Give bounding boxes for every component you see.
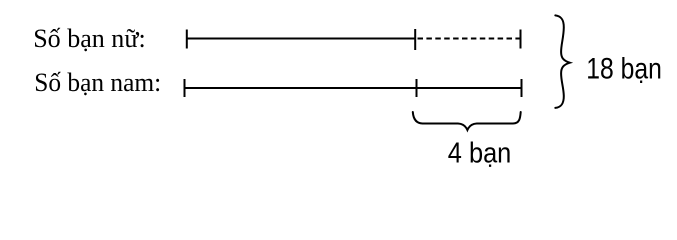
bar girls: dashed segment — [418, 38, 520, 40]
tick boys right — [521, 79, 523, 97]
bar boys: solid line — [185, 87, 522, 89]
tick girls middle — [414, 29, 416, 50]
tick girls left — [186, 30, 188, 49]
svg-text:Số bạn nam:: Số bạn nam: — [34, 67, 161, 97]
right curly brace for total — [555, 15, 570, 108]
tick boys middle — [416, 79, 418, 97]
bar girls: solid segment — [187, 38, 416, 40]
svg-text:Số bạn nữ:: Số bạn nữ: — [33, 23, 146, 53]
svg-text:4 bạn: 4 bạn — [448, 137, 512, 169]
bottom under-brace for difference — [413, 112, 521, 130]
tick girls right — [520, 30, 522, 49]
svg-text:18 bạn: 18 bạn — [586, 53, 662, 86]
tick boys left — [184, 79, 186, 97]
